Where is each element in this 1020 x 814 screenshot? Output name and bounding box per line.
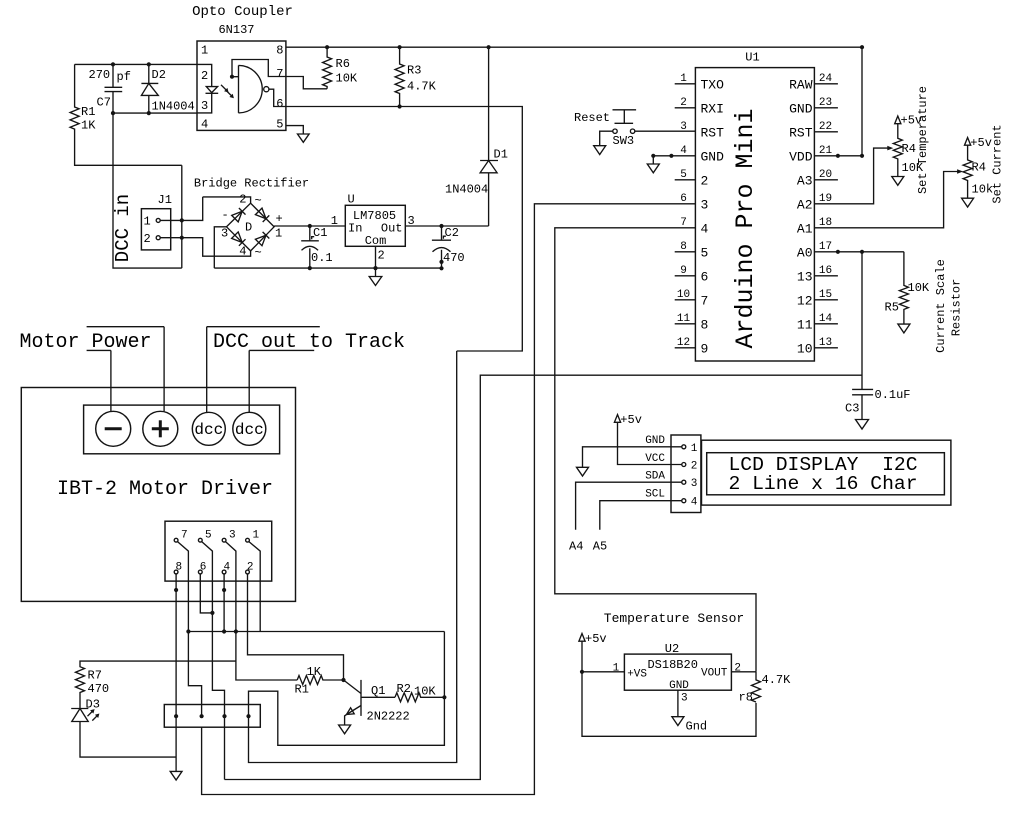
wire motor minus leader: [110, 350, 112, 411]
wire U2 VOUT pin2: [731, 671, 756, 673]
svg-text:R1: R1: [81, 105, 95, 119]
svg-text:1: 1: [144, 215, 151, 229]
svg-text:RST: RST: [789, 125, 813, 140]
connector junction strip: [164, 705, 260, 728]
svg-text:4: 4: [224, 562, 231, 574]
svg-text:7: 7: [701, 293, 709, 308]
svg-text:4: 4: [691, 497, 698, 509]
diode D2 1N4004: [141, 64, 194, 113]
IC U1 Arduino Pro Mini box: [695, 51, 814, 362]
svg-text:U: U: [348, 193, 355, 207]
svg-text:-: -: [222, 208, 229, 222]
switch SW3 Reset: [574, 110, 636, 148]
svg-text:2: 2: [691, 461, 698, 473]
svg-text:VDD: VDD: [789, 149, 813, 164]
svg-text:6: 6: [701, 269, 709, 284]
label Current Scale Resistor: [934, 259, 964, 353]
wire opto pin6 long route to IBT-2 connector: [249, 104, 523, 762]
wire +5v to LCD VCC: [618, 423, 682, 465]
svg-text:C2: C2: [445, 226, 459, 240]
potentiometer R4 Set Temperature: [893, 124, 924, 176]
resistor R3: [395, 47, 437, 106]
wire bridge minus to ground line: [214, 227, 226, 268]
bridge diode top-left: [232, 208, 246, 222]
resistor R7 470: [76, 661, 236, 708]
wire LM7805 Out to D1/C2: [405, 224, 488, 228]
svg-text:SW3: SW3: [613, 134, 635, 148]
diode D1 1N4004: [445, 47, 508, 226]
wire header pin3 route to R1: [226, 542, 298, 680]
svg-text:RAW: RAW: [789, 77, 813, 92]
resistor R1 1K base: [295, 665, 344, 697]
svg-text:7: 7: [276, 67, 283, 81]
svg-text:D3: D3: [86, 698, 100, 712]
wire SW3 to RST pin3: [635, 130, 696, 132]
svg-text:Reset: Reset: [574, 111, 610, 125]
svg-text:C3: C3: [845, 402, 859, 416]
svg-text:RXI: RXI: [701, 101, 724, 116]
op-amp U opto 6N137 package box: [197, 41, 286, 132]
svg-text:16: 16: [819, 265, 832, 277]
svg-text:Resistor: Resistor: [950, 279, 964, 337]
wire U1 pin17 A0 net: [225, 250, 904, 780]
svg-text:~: ~: [255, 246, 262, 260]
LCD display module: [702, 440, 951, 505]
svg-text:10K: 10K: [336, 72, 358, 86]
svg-text:11: 11: [677, 313, 691, 325]
svg-text:Arduino Pro Mini: Arduino Pro Mini: [731, 108, 760, 348]
svg-text:Set Current: Set Current: [991, 124, 1005, 203]
svg-text:2: 2: [734, 663, 741, 675]
svg-text:Opto Coupler: Opto Coupler: [192, 4, 293, 20]
svg-text:12: 12: [677, 337, 690, 349]
svg-text:3: 3: [221, 227, 228, 241]
svg-text:1: 1: [275, 227, 282, 241]
wire J1 pin2 to bridge AC bottom: [160, 236, 250, 257]
svg-text:7: 7: [181, 530, 188, 542]
wire J1 pin1 to bridge AC top: [160, 197, 250, 223]
svg-text:6N137: 6N137: [218, 23, 254, 37]
svg-text:A2: A2: [797, 197, 813, 212]
junction dots on +5V rail: [325, 45, 864, 49]
svg-text:R4: R4: [972, 161, 986, 175]
svg-text:10: 10: [677, 289, 690, 301]
svg-text:IBT-2 Motor Driver: IBT-2 Motor Driver: [57, 478, 273, 501]
wire LCD GND to ground: [583, 447, 682, 467]
wire opto pin5 to ground: [286, 126, 303, 134]
wire pin8 +5V top rail: [286, 46, 862, 48]
wire motor plus leader: [163, 327, 165, 412]
svg-text:VOUT: VOUT: [701, 668, 728, 680]
svg-text:5: 5: [276, 118, 283, 132]
DCC in enclosure: [112, 113, 182, 268]
svg-text:8: 8: [680, 241, 687, 253]
ground U2 Gnd: [672, 717, 707, 734]
wire LCD SCL to A5: [600, 501, 682, 530]
resistor R6: [323, 47, 358, 89]
U1 right pin names: [789, 77, 813, 356]
svg-text:1: 1: [691, 443, 698, 455]
svg-text:~: ~: [255, 194, 262, 208]
svg-text:1: 1: [253, 530, 260, 542]
connector LCD I2C header: [671, 435, 701, 513]
LED D3: [71, 698, 100, 722]
svg-text:2: 2: [201, 69, 208, 83]
svg-text:GND: GND: [645, 435, 665, 447]
svg-text:5: 5: [205, 530, 212, 542]
svg-text:A1: A1: [797, 221, 813, 236]
wire U1 pin19 A2 to R4a wiper: [814, 146, 893, 204]
wire U2 GND pin3 to ground: [677, 690, 679, 716]
svg-text:TXO: TXO: [701, 77, 725, 92]
svg-text:dcc: dcc: [194, 421, 223, 439]
wire dcc2 leader: [248, 350, 250, 412]
ground opto pin5: [298, 134, 310, 142]
U1 right pin stubs 24-13: [814, 73, 838, 349]
opto internal NAND gate: [239, 65, 286, 113]
svg-text:2: 2: [378, 249, 385, 263]
svg-text:GND: GND: [789, 101, 813, 116]
svg-text:1N4004: 1N4004: [445, 183, 488, 197]
wire bridge plus to LM7805 In: [274, 224, 345, 228]
svg-text:C1: C1: [313, 226, 327, 240]
ground R4a: [892, 177, 904, 186]
IC U2 DS18B20: [613, 642, 741, 705]
ground U1 pin4: [647, 164, 659, 173]
svg-text:R1: R1: [295, 683, 309, 697]
svg-text:22: 22: [819, 121, 832, 133]
svg-text:SDA: SDA: [645, 471, 665, 483]
svg-text:Set Temperature: Set Temperature: [916, 86, 930, 194]
svg-text:470: 470: [443, 251, 465, 265]
svg-text:SCL: SCL: [645, 489, 665, 501]
svg-text:1: 1: [201, 44, 208, 58]
wire enable bus: [188, 631, 444, 633]
+5v U2 supply: [579, 632, 607, 646]
svg-text:A0: A0: [797, 245, 813, 260]
wire header pin5 route: [202, 542, 225, 780]
svg-text:3: 3: [201, 99, 208, 113]
+5v LCD supply: [614, 413, 642, 427]
wire header pin2 to Q1 base: [248, 574, 344, 680]
+5v R4b: [965, 136, 992, 150]
ground header pin8: [170, 771, 182, 780]
bridge diode bottom-right: [255, 232, 269, 246]
svg-text:U1: U1: [745, 51, 759, 65]
ground SW3: [594, 146, 606, 155]
svg-text:11: 11: [797, 317, 813, 332]
terminal dcc 2: [233, 412, 266, 445]
svg-text:C7: C7: [97, 96, 111, 110]
capacitor C1 0.1: [301, 226, 332, 268]
ground R4b: [962, 198, 974, 207]
ground C3: [856, 420, 869, 430]
svg-text:2 Line x 16 Char: 2 Line x 16 Char: [728, 473, 917, 495]
svg-text:0.1uF: 0.1uF: [875, 388, 911, 402]
svg-text:D1: D1: [494, 148, 508, 162]
svg-text:10K: 10K: [908, 281, 930, 295]
svg-text:6: 6: [200, 562, 207, 574]
wire dcc1 leader: [206, 327, 208, 413]
wire U1 pin18 A1 to R4b wiper: [814, 169, 963, 228]
svg-text:9: 9: [701, 341, 709, 356]
wire ground bus bottom: [214, 266, 443, 270]
svg-text:4: 4: [701, 221, 709, 236]
svg-text:R3: R3: [407, 64, 421, 78]
svg-text:12: 12: [797, 293, 813, 308]
IBT-2 module box: [21, 388, 295, 602]
svg-text:D2: D2: [152, 68, 166, 82]
capacitor C3 0.1uF: [845, 388, 911, 419]
svg-text:J1: J1: [158, 193, 172, 207]
terminal minus: [96, 411, 131, 446]
svg-text:4.7K: 4.7K: [762, 673, 792, 687]
wire LCD SDA to A4: [576, 482, 682, 530]
svg-text:4.7K: 4.7K: [407, 80, 437, 94]
U1 left pin names: [701, 77, 725, 356]
bridge diode top-right: [255, 208, 269, 222]
svg-text:2: 2: [144, 232, 151, 246]
svg-text:Gnd: Gnd: [686, 720, 708, 734]
opto internal LED: [197, 64, 218, 113]
svg-text:8: 8: [276, 44, 283, 58]
wire header pin1 route: [249, 542, 260, 632]
ground Q1 emitter: [339, 725, 351, 734]
wire base junction: [341, 678, 361, 694]
wire header pin6 jog to pin5 line: [200, 574, 212, 613]
svg-text:DS18B20: DS18B20: [647, 658, 697, 672]
svg-text:1K: 1K: [81, 119, 96, 133]
svg-text:2: 2: [239, 193, 246, 207]
svg-text:8: 8: [701, 317, 709, 332]
svg-text:15: 15: [819, 289, 832, 301]
svg-text:3: 3: [691, 478, 698, 490]
ground R5: [898, 324, 910, 333]
svg-text:GND: GND: [669, 680, 689, 692]
opto coupler title: [192, 4, 293, 37]
svg-text:2N2222: 2N2222: [367, 710, 410, 724]
terminal dcc 1: [192, 412, 225, 445]
svg-text:1: 1: [331, 214, 338, 228]
svg-text:R5: R5: [885, 301, 899, 315]
svg-text:20: 20: [819, 169, 832, 181]
wire DCC input top (pin2 net): [75, 62, 197, 66]
svg-text:D: D: [245, 221, 252, 235]
regulator U LM7805: [331, 193, 415, 263]
svg-text:2: 2: [680, 97, 687, 109]
wire U1 pin7 "4" to DS18B20 VOUT: [555, 228, 756, 672]
svg-text:Motor Power: Motor Power: [20, 331, 152, 354]
svg-text:+5v: +5v: [585, 632, 607, 646]
svg-text:5: 5: [701, 245, 709, 260]
svg-text:A5: A5: [593, 540, 607, 554]
potentiometer R4 Set Current: [963, 146, 993, 199]
svg-text:14: 14: [819, 313, 833, 325]
wire U1 pin4 GND: [651, 154, 695, 164]
svg-text:24: 24: [819, 73, 833, 85]
opto enable bracket pin7 internal: [230, 60, 286, 79]
svg-text:1N4004: 1N4004: [152, 100, 195, 114]
wire LM7805 Com pin2 to ground: [375, 246, 377, 276]
svg-text:3: 3: [681, 693, 688, 705]
svg-text:In: In: [348, 222, 362, 236]
svg-text:RST: RST: [701, 125, 725, 140]
svg-text:+5v: +5v: [970, 136, 992, 150]
svg-text:13: 13: [819, 337, 832, 349]
terminal plus: [143, 411, 178, 446]
svg-text:r8: r8: [739, 691, 753, 705]
ground LCD: [577, 467, 589, 476]
resistor R1 input: [70, 64, 182, 165]
svg-text:4: 4: [201, 118, 208, 132]
svg-text:3: 3: [229, 530, 236, 542]
svg-text:+5v: +5v: [620, 413, 642, 427]
svg-text:+VS: +VS: [627, 669, 647, 681]
svg-text:470: 470: [88, 682, 110, 696]
wire U1 pin6 "3" to connector pin6: [202, 204, 696, 795]
svg-text:Com: Com: [365, 234, 387, 248]
svg-text:VCC: VCC: [645, 453, 665, 465]
svg-text:0.1: 0.1: [311, 251, 333, 265]
svg-text:23: 23: [819, 97, 832, 109]
svg-text:3: 3: [701, 197, 709, 212]
connector IBT-2 8-pin header: [165, 521, 272, 581]
svg-text:10: 10: [797, 341, 813, 356]
svg-text:2: 2: [247, 562, 254, 574]
svg-text:4: 4: [239, 245, 246, 259]
svg-text:13: 13: [797, 269, 813, 284]
svg-text:2: 2: [701, 173, 709, 188]
svg-text:R6: R6: [336, 57, 350, 71]
U1 left pin stubs 1-12: [675, 73, 696, 349]
svg-text:dcc: dcc: [235, 421, 264, 439]
svg-text:270: 270: [89, 68, 111, 82]
+5v R4a: [895, 114, 922, 128]
svg-text:R7: R7: [88, 669, 102, 683]
wire opto pin7 to R6 bottom: [286, 77, 327, 89]
wire DCC input bottom (pin3 net): [111, 111, 197, 115]
capacitor C7 270pf: [89, 64, 131, 113]
svg-text:9: 9: [680, 265, 687, 277]
wire +5v to U2 +VS pin1 and ground bus: [580, 641, 756, 736]
LCD pin name labels: [645, 435, 665, 501]
terminal strip box: [84, 405, 280, 454]
resistor R2 10K: [395, 682, 447, 702]
bridge rectifier D: [221, 193, 283, 261]
svg-text:DCC in: DCC in: [112, 194, 134, 262]
label DCC out to Track: [207, 327, 405, 354]
wire header pin7 route: [178, 542, 202, 717]
wire +5V rail to VDD pin21: [814, 47, 864, 158]
svg-text:+: +: [276, 212, 283, 226]
svg-text:Q1: Q1: [371, 684, 385, 698]
svg-text:Bridge Rectifier: Bridge Rectifier: [194, 177, 309, 191]
svg-text:pf: pf: [117, 70, 131, 84]
svg-text:GND: GND: [701, 149, 725, 164]
svg-text:1: 1: [680, 73, 687, 85]
svg-text:Current Scale: Current Scale: [934, 259, 948, 353]
svg-text:5: 5: [680, 169, 687, 181]
connector J1: [141, 193, 172, 250]
opto light arrows: [221, 85, 234, 98]
wire header pin4 to enable bus: [222, 574, 226, 634]
svg-text:R4: R4: [902, 142, 916, 156]
svg-text:A4: A4: [569, 540, 583, 554]
svg-text:1: 1: [613, 663, 620, 675]
wire header pin8 to ground: [174, 574, 178, 771]
wire SW3 to ground: [600, 131, 613, 145]
ground LM7805: [369, 277, 382, 286]
wire D3 to ground line: [80, 722, 176, 758]
capacitor C2 470: [432, 226, 465, 268]
bridge diode bottom-left: [232, 232, 246, 246]
svg-text:8: 8: [176, 562, 183, 574]
label Motor Power: [20, 327, 165, 354]
svg-text:A3: A3: [797, 173, 813, 188]
svg-text:Temperature Sensor: Temperature Sensor: [604, 611, 744, 626]
transistor Q1 2N2222: [345, 680, 410, 725]
resistor R5 current scale: [885, 252, 930, 324]
svg-text:6: 6: [276, 97, 283, 111]
resistor r8 4.7K pullup: [739, 672, 792, 705]
